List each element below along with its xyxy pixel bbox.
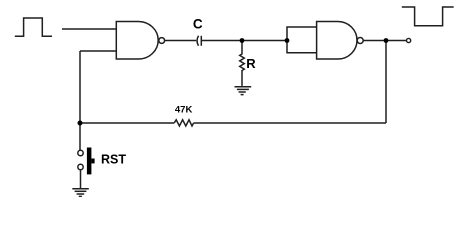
svg-text:R: R [246, 56, 256, 71]
svg-text:C: C [193, 16, 203, 31]
svg-text:47K: 47K [175, 105, 193, 116]
svg-text:RST: RST [101, 152, 126, 166]
